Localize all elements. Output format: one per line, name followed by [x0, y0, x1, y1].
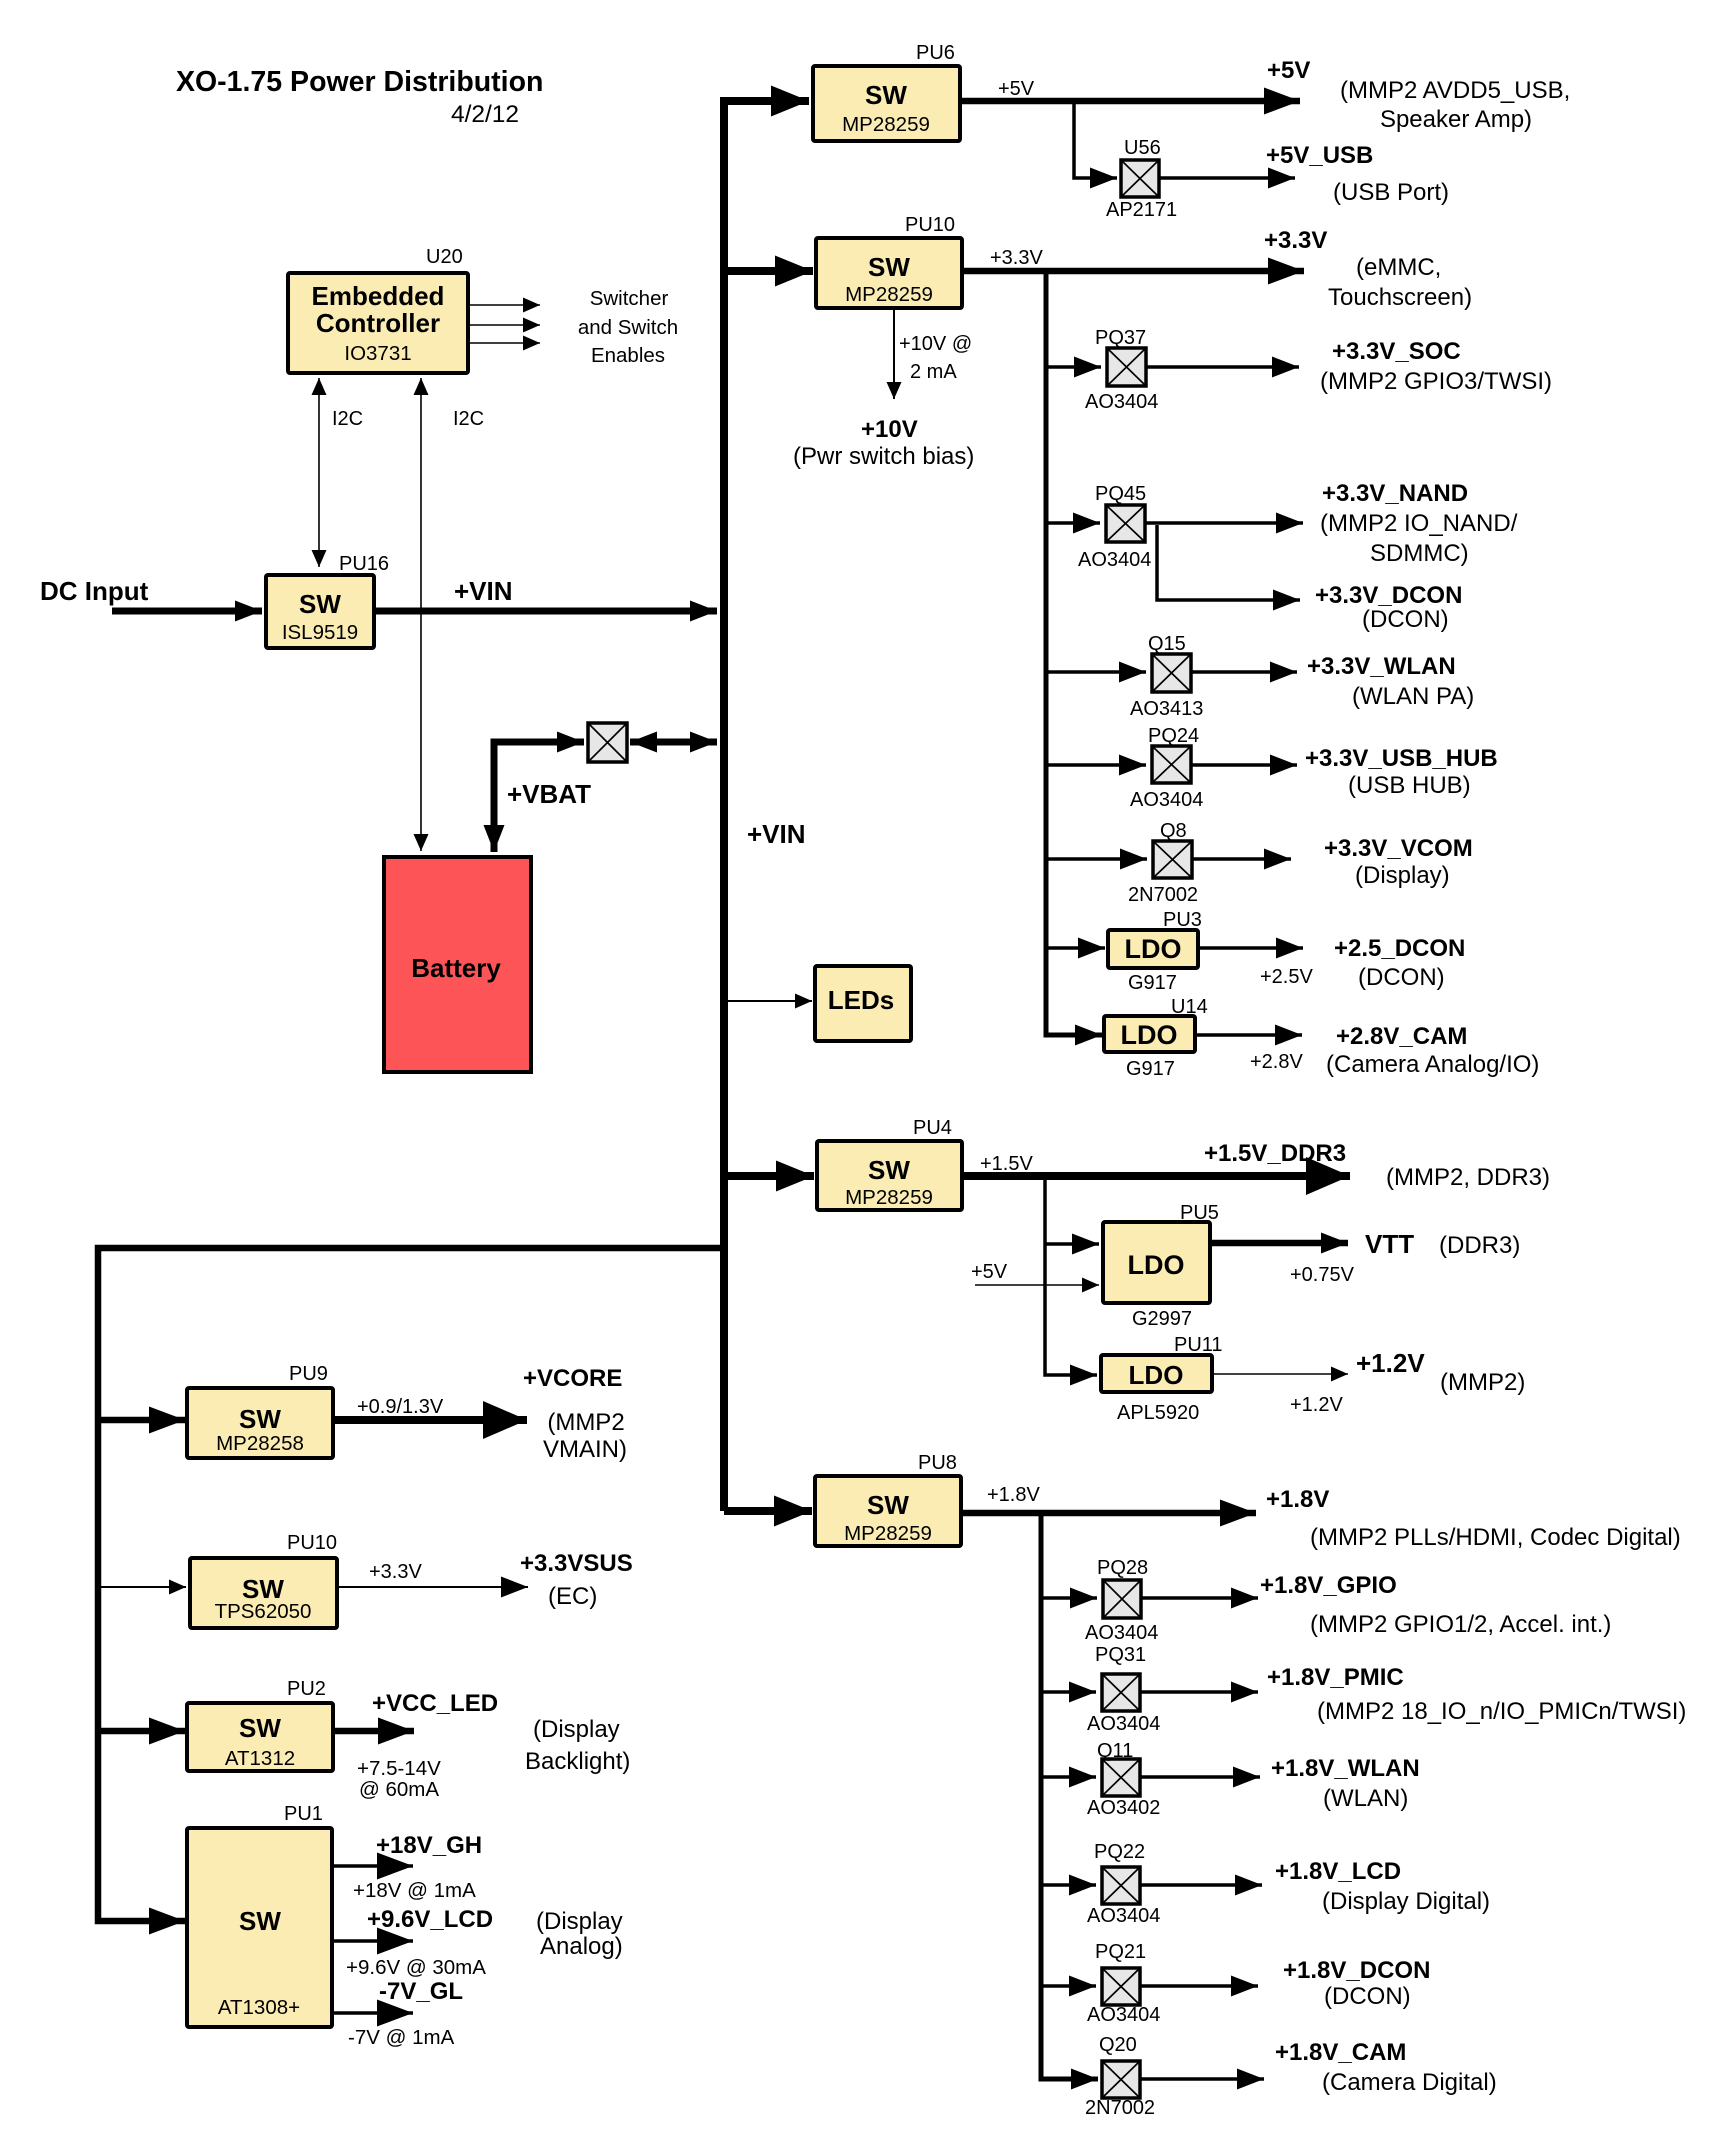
svg-text:+1.8V_PMIC: +1.8V_PMIC: [1267, 1664, 1404, 1691]
svg-text:SW: SW: [867, 1490, 909, 1520]
svg-text:AO3404: AO3404: [1085, 391, 1158, 413]
svg-text:+2.8V: +2.8V: [1250, 1051, 1303, 1073]
node +1.8V_GPIO: [1260, 1572, 1611, 1638]
svg-text:+7.5-14V: +7.5-14V: [357, 1757, 441, 1780]
svg-text:PU3: PU3: [1163, 909, 1202, 931]
wire +3.3V_WLAN: [1191, 670, 1297, 674]
svg-text:G917: G917: [1128, 972, 1177, 994]
switcher PU1: [187, 1803, 332, 2027]
svg-text:PU8: PU8: [918, 1452, 957, 1474]
wire +1.8V_GPIO: [1141, 1596, 1258, 1600]
svg-text:Switcher: Switcher: [590, 287, 669, 310]
wire bus to PU8: [724, 1507, 812, 1515]
transistor Q20: [1085, 2034, 1155, 2119]
node Switcher and Switch Enables: [578, 287, 678, 367]
svg-text:Analog): Analog): [540, 1933, 623, 1960]
svg-text:Speaker Amp): Speaker Amp): [1380, 106, 1532, 133]
svg-text:PU5: PU5: [1180, 1202, 1219, 1224]
svg-text:ISL9519: ISL9519: [282, 621, 358, 644]
svg-text:PU6: PU6: [916, 42, 955, 64]
svg-text:+3.3V_DCON: +3.3V_DCON: [1315, 582, 1462, 609]
node +3.3V_NAND: [1320, 480, 1518, 567]
wire spine to PQ45: [1046, 521, 1100, 525]
node +2.8V_CAM: [1326, 1023, 1539, 1078]
svg-text:(WLAN): (WLAN): [1323, 1785, 1408, 1812]
svg-text:-7V_GL: -7V_GL: [379, 1978, 463, 2005]
svg-text:AO3404: AO3404: [1130, 789, 1203, 811]
wire +3.3V_USB_HUB: [1191, 763, 1297, 767]
svg-text:G2997: G2997: [1132, 1308, 1192, 1330]
wire +1.8V: [961, 1484, 1256, 1513]
svg-text:(MMP2: (MMP2: [547, 1409, 624, 1436]
svg-text:SW: SW: [239, 1404, 281, 1434]
svg-text:+1.2V: +1.2V: [1290, 1394, 1343, 1416]
wire +5V: [960, 78, 1300, 101]
node +3.3V_DCON: [1315, 582, 1462, 633]
switcher PU8: [815, 1452, 961, 1546]
svg-text:+3.3V_VCOM: +3.3V_VCOM: [1324, 835, 1473, 862]
wire spine to PQ37: [1046, 365, 1101, 369]
svg-text:PU10: PU10: [287, 1532, 337, 1554]
transistor PQ31: [1087, 1644, 1160, 1735]
wire +1.8V_PMIC: [1140, 1690, 1258, 1694]
transistor PQ45: [1078, 483, 1151, 571]
svg-text:+VCC_LED: +VCC_LED: [372, 1690, 498, 1717]
svg-text:VMAIN): VMAIN): [543, 1436, 627, 1463]
svg-text:+3.3V_USB_HUB: +3.3V_USB_HUB: [1305, 745, 1498, 772]
svg-text:+3.3V: +3.3V: [990, 247, 1043, 269]
svg-text:AP2171: AP2171: [1106, 199, 1177, 221]
svg-text:+0.9/1.3V: +0.9/1.3V: [357, 1396, 444, 1418]
svg-text:MP28259: MP28259: [842, 113, 930, 136]
svg-text:4/2/12: 4/2/12: [451, 101, 519, 128]
svg-text:and Switch: and Switch: [578, 316, 678, 339]
wire +1.5V: [962, 1153, 1350, 1176]
switcher PU6: [813, 42, 960, 141]
node +1.8V_DCON: [1283, 1957, 1430, 2010]
node +2.5_DCON: [1334, 935, 1465, 991]
svg-text:(MMP2, DDR3): (MMP2, DDR3): [1386, 1164, 1550, 1191]
wire +1.8V_WLAN: [1140, 1775, 1260, 1779]
svg-text:SW: SW: [868, 1155, 910, 1185]
wire bus to LEDs: [724, 1000, 812, 1002]
transistor battery switch: [588, 723, 627, 762]
wire +3.3VSUS: [337, 1561, 528, 1587]
svg-text:Controller: Controller: [316, 308, 440, 338]
svg-text:MP28259: MP28259: [844, 1522, 932, 1545]
svg-text:LEDs: LEDs: [828, 985, 894, 1015]
wire 1.5V spine: [1045, 1176, 1097, 1375]
svg-text:+VCORE: +VCORE: [523, 1365, 622, 1392]
node +1.8V: [1266, 1486, 1681, 1551]
svg-text:(EC): (EC): [548, 1583, 597, 1610]
svg-text:2 mA: 2 mA: [910, 361, 957, 383]
transistor Q8: [1128, 820, 1198, 906]
wire spine to PQ22: [1041, 1883, 1096, 1887]
svg-text:+1.5V: +1.5V: [980, 1153, 1033, 1175]
wire spine to PU3: [1046, 946, 1105, 950]
svg-text:+2.8V_CAM: +2.8V_CAM: [1336, 1023, 1467, 1050]
wire enable 2: [468, 324, 540, 326]
wire +2.5_DCON: [1198, 948, 1313, 988]
svg-text:U56: U56: [1124, 137, 1161, 159]
node +5V_USB: [1266, 142, 1449, 206]
wire +3.3V_NAND: [1145, 521, 1303, 525]
wire spine to PQ28: [1041, 1596, 1097, 1600]
svg-text:(MMP2 18_IO_n/IO_PMICn/TWSI): (MMP2 18_IO_n/IO_PMICn/TWSI): [1317, 1698, 1686, 1725]
svg-text:(DCON): (DCON): [1324, 1983, 1411, 2010]
svg-text:-7V @ 1mA: -7V @ 1mA: [348, 2026, 455, 2049]
LDO PU5: [1103, 1202, 1219, 1330]
svg-text:2N7002: 2N7002: [1128, 884, 1198, 906]
svg-text:PQ31: PQ31: [1095, 1644, 1146, 1666]
transistor PQ24: [1130, 725, 1203, 811]
svg-text:+3.3V: +3.3V: [369, 1561, 422, 1583]
node +3.3V: [1264, 227, 1472, 311]
svg-text:+10V: +10V: [861, 416, 918, 443]
LDO U14: [1104, 996, 1208, 1080]
svg-text:Q15: Q15: [1148, 633, 1186, 655]
wire feed to PU10 EC: [98, 1586, 186, 1588]
wire feed to PU9: [98, 1417, 185, 1424]
svg-text:+10V @: +10V @: [899, 333, 972, 355]
wire spine to PQ24: [1046, 763, 1146, 767]
svg-text:APL5920: APL5920: [1117, 1402, 1199, 1424]
svg-text:I2C: I2C: [332, 408, 363, 430]
wire +5V to PU5: [971, 1261, 1099, 1285]
svg-text:SDMMC): SDMMC): [1370, 540, 1469, 567]
svg-text:(USB HUB): (USB HUB): [1348, 772, 1471, 799]
title: [176, 66, 543, 128]
wire +3.3V_DCON: [1157, 525, 1300, 600]
wire spine to PQ21: [1041, 1984, 1096, 1988]
transistor PQ22: [1087, 1841, 1160, 1927]
wire +10V stub: [894, 308, 972, 399]
svg-text:AO3404: AO3404: [1087, 2004, 1160, 2026]
node DC Input: [40, 576, 262, 611]
node -7V_GL: [348, 1978, 463, 2049]
wire spine to Q8: [1046, 857, 1147, 861]
svg-text:LDO: LDO: [1129, 1360, 1184, 1390]
wire +5V_USB: [1159, 176, 1295, 180]
wire feed to PU2: [98, 1728, 185, 1735]
svg-text:(DCON): (DCON): [1358, 964, 1445, 991]
svg-text:Q11: Q11: [1097, 1740, 1133, 1762]
wire 3.3V spine: [1046, 271, 1102, 1035]
svg-text:SW: SW: [868, 252, 910, 282]
svg-text:AO3404: AO3404: [1087, 1713, 1160, 1735]
switcher PU4: [817, 1117, 962, 1210]
transistor PQ37: [1085, 327, 1158, 413]
svg-text:SW: SW: [239, 1713, 281, 1743]
svg-text:Enables: Enables: [591, 344, 665, 367]
svg-text:(MMP2 IO_NAND/: (MMP2 IO_NAND/: [1320, 510, 1518, 537]
svg-text:(Camera Analog/IO): (Camera Analog/IO): [1326, 1051, 1539, 1078]
wire +18V_GH: [333, 1864, 413, 1868]
svg-text:+9.6V_LCD: +9.6V_LCD: [367, 1906, 493, 1933]
svg-text:I2C: I2C: [453, 408, 484, 430]
svg-text:MP28259: MP28259: [845, 1186, 933, 1209]
wire +1.8V_DCON: [1140, 1984, 1258, 1988]
node +1.2V: [1356, 1348, 1525, 1396]
node +1.5V_DDR3: [1204, 1140, 1550, 1191]
svg-text:+VIN: +VIN: [454, 576, 513, 606]
wire bus to PU10: [724, 267, 813, 275]
transistor Q11: [1087, 1740, 1160, 1819]
svg-text:+5V: +5V: [998, 78, 1035, 100]
svg-text:+5V: +5V: [971, 1261, 1008, 1283]
svg-text:AO3404: AO3404: [1078, 549, 1151, 571]
svg-text:+2.5V: +2.5V: [1260, 966, 1313, 988]
node Display Analog: [536, 1908, 623, 1960]
svg-text:+1.8V_GPIO: +1.8V_GPIO: [1260, 1572, 1397, 1599]
switcher PU16: [266, 553, 389, 648]
switcher PU2: [187, 1678, 333, 1771]
svg-text:+0.75V: +0.75V: [1290, 1264, 1355, 1286]
wire left feed from bus: [98, 1248, 726, 1921]
svg-text:U20: U20: [426, 246, 463, 268]
node +3.3V_WLAN: [1307, 653, 1474, 710]
wire spine to Q15: [1046, 670, 1146, 674]
wire +5V to U56: [1074, 101, 1117, 178]
svg-text:+VIN: +VIN: [747, 819, 806, 849]
switch U56: [1106, 137, 1177, 221]
svg-text:G917: G917: [1126, 1058, 1175, 1080]
svg-text:(DCON): (DCON): [1362, 606, 1449, 633]
node +18V_GH: [353, 1832, 482, 1902]
transistor Q15: [1130, 633, 1203, 720]
svg-text:Q20: Q20: [1099, 2034, 1137, 2056]
svg-text:PQ45: PQ45: [1095, 483, 1146, 505]
wire -7V_GL: [333, 2011, 413, 2015]
svg-text:PU4: PU4: [913, 1117, 952, 1139]
svg-text:+1.8V: +1.8V: [1266, 1486, 1329, 1513]
battery: [384, 857, 531, 1072]
svg-text:SW: SW: [865, 80, 907, 110]
svg-text:(MMP2 PLLs/HDMI, Codec Digital: (MMP2 PLLs/HDMI, Codec Digital): [1310, 1524, 1681, 1551]
svg-text:+3.3V_WLAN: +3.3V_WLAN: [1307, 653, 1456, 680]
node +VCC_LED: [357, 1690, 630, 1801]
svg-text:Embedded: Embedded: [312, 281, 445, 311]
svg-text:SW: SW: [299, 589, 341, 619]
svg-text:PQ37: PQ37: [1095, 327, 1146, 349]
svg-text:+3.3VSUS: +3.3VSUS: [520, 1550, 633, 1577]
node +3.3VSUS: [520, 1550, 633, 1610]
switcher PU10 EC: [190, 1532, 337, 1628]
svg-text:(Pwr switch bias): (Pwr switch bias): [793, 443, 974, 470]
wire battery switch to VIN bus: [630, 739, 717, 746]
svg-text:+1.8V_CAM: +1.8V_CAM: [1275, 2039, 1406, 2066]
svg-text:+VBAT: +VBAT: [507, 779, 591, 809]
wire +1.8V_CAM: [1140, 2077, 1264, 2081]
node +3.3V_SOC: [1320, 338, 1552, 395]
embedded controller U20: [288, 246, 468, 373]
svg-text:+1.8V_WLAN: +1.8V_WLAN: [1271, 1755, 1420, 1782]
svg-text:+3.3V_NAND: +3.3V_NAND: [1322, 480, 1468, 507]
svg-text:(Camera Digital): (Camera Digital): [1322, 2069, 1497, 2096]
wire +3.3V_SOC: [1146, 365, 1299, 369]
svg-text:LDO: LDO: [1125, 934, 1182, 964]
wire I2C U20 to PU16: [319, 378, 363, 567]
svg-text:@ 60mA: @ 60mA: [359, 1778, 439, 1801]
svg-text:(DDR3): (DDR3): [1439, 1232, 1520, 1259]
svg-text:+1.8V_DCON: +1.8V_DCON: [1283, 1957, 1430, 1984]
svg-text:(MMP2 AVDD5_USB,: (MMP2 AVDD5_USB,: [1340, 77, 1570, 104]
svg-text:(Display: (Display: [533, 1716, 620, 1743]
svg-text:MP28259: MP28259: [845, 283, 933, 306]
svg-text:Backlight): Backlight): [525, 1748, 630, 1775]
svg-text:(Display: (Display: [536, 1908, 623, 1935]
switcher PU9: [187, 1363, 333, 1458]
svg-text:2N7002: 2N7002: [1085, 2097, 1155, 2119]
svg-text:+1.8V_LCD: +1.8V_LCD: [1275, 1858, 1401, 1885]
svg-text:Battery: Battery: [411, 953, 501, 983]
node +1.8V_CAM: [1275, 2039, 1497, 2096]
svg-text:AT1312: AT1312: [225, 1747, 295, 1770]
svg-text:IO3731: IO3731: [344, 342, 411, 365]
wire bus to PU4: [724, 1172, 814, 1180]
wire 1.8V spine: [1041, 1513, 1098, 2079]
wire +3.3V_VCOM: [1192, 857, 1291, 861]
svg-text:TPS62050: TPS62050: [215, 1600, 312, 1623]
svg-text:AO3404: AO3404: [1087, 1905, 1160, 1927]
wire +VCORE: [333, 1396, 527, 1420]
svg-text:+3.3V_SOC: +3.3V_SOC: [1332, 338, 1461, 365]
wire +9.6V_LCD: [333, 1939, 413, 1943]
svg-text:XO-1.75 Power Distribution: XO-1.75 Power Distribution: [176, 66, 543, 98]
switcher PU10: [816, 214, 962, 308]
node VTT: [1365, 1229, 1520, 1259]
wire spine to PU5: [1045, 1242, 1099, 1246]
transistor PQ28: [1085, 1557, 1158, 1644]
svg-text:AO3402: AO3402: [1087, 1797, 1160, 1819]
node +VIN bus: [724, 101, 809, 1511]
svg-text:MP28258: MP28258: [216, 1432, 304, 1455]
svg-text:PQ28: PQ28: [1097, 1557, 1148, 1579]
LDO PU3: [1108, 909, 1202, 994]
svg-text:(USB Port): (USB Port): [1333, 179, 1449, 206]
wire +VCC_LED: [333, 1728, 414, 1735]
svg-text:+2.5_DCON: +2.5_DCON: [1334, 935, 1465, 962]
wire +1.2V: [1212, 1374, 1348, 1416]
node +1.8V_PMIC: [1267, 1664, 1686, 1725]
svg-text:(Display): (Display): [1355, 862, 1450, 889]
LDO PU11: [1101, 1334, 1223, 1424]
svg-text:AO3404: AO3404: [1085, 1622, 1158, 1644]
wire spine to Q11: [1041, 1775, 1096, 1779]
wire +1.8V_LCD: [1140, 1883, 1262, 1887]
node +VCORE: [523, 1365, 627, 1463]
svg-text:PU9: PU9: [289, 1363, 328, 1385]
svg-text:PQ21: PQ21: [1095, 1941, 1146, 1963]
svg-text:(eMMC,: (eMMC,: [1356, 254, 1441, 281]
wire +VIN: [374, 576, 717, 611]
svg-text:VTT: VTT: [1365, 1229, 1414, 1259]
svg-text:PU11: PU11: [1174, 1334, 1223, 1356]
svg-text:U14: U14: [1171, 996, 1208, 1018]
svg-text:+1.5V_DDR3: +1.5V_DDR3: [1204, 1140, 1346, 1167]
svg-text:PQ22: PQ22: [1094, 1841, 1145, 1863]
svg-text:(MMP2 GPIO1/2, Accel. int.): (MMP2 GPIO1/2, Accel. int.): [1310, 1611, 1611, 1638]
svg-text:+18V @ 1mA: +18V @ 1mA: [353, 1879, 476, 1902]
wire enable 3: [468, 342, 540, 344]
svg-text:DC Input: DC Input: [40, 576, 149, 606]
LEDs: [815, 966, 911, 1041]
wire I2C U20 to battery: [421, 378, 484, 851]
svg-text:LDO: LDO: [1121, 1020, 1178, 1050]
node +10V: [793, 416, 974, 470]
node +3.3V_VCOM: [1324, 835, 1473, 889]
node +1.8V_LCD: [1275, 1858, 1490, 1915]
node +9.6V_LCD: [346, 1906, 493, 1979]
svg-text:PQ24: PQ24: [1148, 725, 1199, 747]
svg-text:+5V_USB: +5V_USB: [1266, 142, 1373, 169]
svg-text:PU10: PU10: [905, 214, 955, 236]
svg-text:+18V_GH: +18V_GH: [376, 1832, 482, 1859]
node +3.3V_USB_HUB: [1305, 745, 1498, 799]
node +5V: [1267, 57, 1570, 133]
svg-text:(Display Digital): (Display Digital): [1322, 1888, 1490, 1915]
transistor PQ21: [1087, 1941, 1160, 2026]
svg-text:+5V: +5V: [1267, 57, 1310, 84]
svg-text:+1.2V: +1.2V: [1356, 1348, 1425, 1378]
wire +3.3V: [962, 247, 1304, 271]
svg-text:PU2: PU2: [287, 1678, 326, 1700]
wire +2.8V_CAM: [1195, 1035, 1303, 1073]
svg-text:AT1308+: AT1308+: [218, 1996, 300, 2019]
svg-text:PU16: PU16: [339, 553, 389, 575]
svg-text:(WLAN PA): (WLAN PA): [1352, 683, 1474, 710]
svg-text:+1.8V: +1.8V: [987, 1484, 1040, 1506]
svg-text:(MMP2 GPIO3/TWSI): (MMP2 GPIO3/TWSI): [1320, 368, 1552, 395]
wire VTT: [1210, 1243, 1355, 1286]
svg-text:SW: SW: [239, 1906, 281, 1936]
svg-text:Q8: Q8: [1160, 820, 1187, 842]
svg-text:+9.6V @ 30mA: +9.6V @ 30mA: [346, 1956, 486, 1979]
wire enable 1: [468, 304, 540, 306]
svg-text:LDO: LDO: [1128, 1250, 1185, 1280]
svg-text:PU1: PU1: [284, 1803, 323, 1825]
svg-text:+3.3V: +3.3V: [1264, 227, 1327, 254]
svg-text:(MMP2): (MMP2): [1440, 1369, 1525, 1396]
svg-text:AO3413: AO3413: [1130, 698, 1203, 720]
wire spine to PQ31: [1041, 1690, 1096, 1694]
node +1.8V_WLAN: [1271, 1755, 1420, 1812]
wire +VBAT: [494, 742, 591, 852]
svg-text:Touchscreen): Touchscreen): [1328, 284, 1472, 311]
